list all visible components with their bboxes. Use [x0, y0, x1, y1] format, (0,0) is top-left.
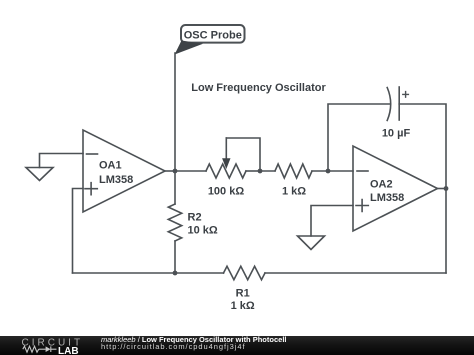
svg-text:10 kΩ: 10 kΩ	[188, 225, 218, 237]
wire bottom rail left	[73, 272, 224, 274]
svg-text:LAB: LAB	[58, 346, 79, 355]
node D junction dot	[444, 186, 449, 191]
svg-text:LM358: LM358	[370, 192, 404, 204]
svg-text:1 kΩ: 1 kΩ	[231, 300, 255, 312]
wire node C to OA2 inverting input	[328, 170, 353, 172]
wire bottom rail right	[265, 272, 446, 274]
potentiometer 100 kOhm	[206, 138, 260, 198]
wire OA2 non-inverting input	[311, 206, 353, 237]
wire capacitor to node D	[399, 104, 446, 189]
op-amp OA1	[83, 130, 165, 212]
wire node A to potentiometer	[175, 170, 206, 172]
wire OA1 inverting input	[40, 154, 84, 168]
svg-text:LM358: LM358	[99, 174, 133, 186]
capacitor C1 10 uF	[382, 87, 411, 140]
wire 1k to node C	[312, 170, 328, 172]
resistor 1 kOhm	[275, 164, 312, 198]
resistor R2 10 kOhm	[168, 171, 218, 273]
resistor R1 1 kOhm	[224, 266, 266, 312]
op-amp OA2	[353, 146, 438, 231]
wire OA1 output	[165, 170, 175, 172]
node C junction dot	[326, 169, 331, 174]
node A junction dot	[173, 169, 178, 174]
footer bar	[0, 336, 474, 355]
svg-text:OA2: OA2	[370, 179, 393, 191]
svg-text:10 µF: 10 µF	[382, 128, 411, 140]
svg-text:OA1: OA1	[99, 160, 122, 172]
wire node B to resistor 1k	[260, 170, 275, 172]
svg-text:OSC Probe: OSC Probe	[184, 30, 242, 42]
wire OA1 non-inverting input	[73, 189, 84, 274]
wire node C up to capacitor	[328, 104, 390, 171]
node E junction dot	[173, 271, 178, 276]
wire OA2 output	[438, 188, 447, 190]
footer credit text	[101, 337, 286, 351]
svg-text:100 kΩ: 100 kΩ	[208, 186, 245, 198]
probe flag OSC Probe	[175, 25, 245, 55]
svg-text:R1: R1	[236, 288, 250, 300]
wire probe to node A	[174, 53, 176, 171]
svg-text:R2: R2	[188, 212, 202, 224]
ground GND2	[298, 236, 325, 250]
svg-text:Low Frequency Oscillator: Low Frequency Oscillator	[191, 82, 326, 94]
wire node D down right side	[445, 189, 447, 274]
svg-text:1 kΩ: 1 kΩ	[282, 186, 306, 198]
node B junction dot	[258, 169, 263, 174]
ground GND1	[26, 168, 53, 181]
CircuitLab logo	[21, 337, 81, 355]
